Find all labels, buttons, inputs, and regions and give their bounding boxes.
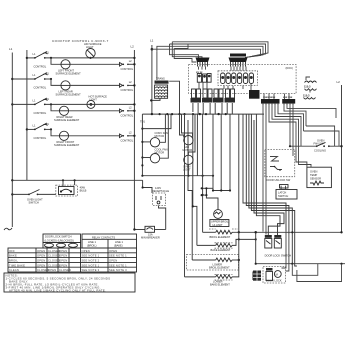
svg-text:LINE 1: LINE 1 xyxy=(88,240,96,244)
svg-text:SURFACE ELEMENT: SURFACE ELEMENT xyxy=(56,72,82,76)
connector blob xyxy=(253,272,258,281)
wire xyxy=(142,114,171,129)
lower bus xyxy=(256,263,345,265)
motor door lock xyxy=(263,267,286,284)
svg-text:LINE 1: LINE 1 xyxy=(115,240,123,244)
pin header row xyxy=(191,89,236,103)
svg-text:TIME BAKE: TIME BAKE xyxy=(9,263,25,267)
motor oven fan xyxy=(180,114,194,152)
wire xyxy=(70,63,119,65)
receptacle 120V xyxy=(152,186,169,206)
relay contacts header xyxy=(82,234,137,248)
switch oven light xyxy=(27,190,43,205)
lower bake element xyxy=(185,260,258,286)
svg-text:M: M xyxy=(276,272,278,276)
connector P2 xyxy=(229,54,248,67)
wire L1 bus A xyxy=(11,53,13,228)
svg-text:L2: L2 xyxy=(131,45,135,49)
transformer T1 xyxy=(150,77,180,115)
svg-text:OVEN: OVEN xyxy=(310,170,317,174)
svg-text:LIGHT: LIGHT xyxy=(86,45,94,49)
svg-text:TRANS: TRANS xyxy=(156,77,165,81)
motor conv fan xyxy=(142,114,167,147)
wire top feed 3 xyxy=(170,44,266,57)
door lock switch dashed box xyxy=(265,150,295,183)
svg-text:CONTROL: CONTROL xyxy=(121,139,134,143)
door lock area xyxy=(253,231,345,283)
svg-text:H1: H1 xyxy=(46,122,50,126)
element right rear xyxy=(59,106,68,115)
svg-text:SWITCH: SWITCH xyxy=(29,201,39,205)
svg-text:SEE NOTE 1: SEE NOTE 1 xyxy=(109,254,127,258)
interlock dark xyxy=(253,271,261,281)
svg-text:OPEN: OPEN xyxy=(59,259,67,263)
switch b xyxy=(274,235,281,238)
svg-text:SEE NOTE 1: SEE NOTE 1 xyxy=(109,263,127,267)
lamp cooktop light xyxy=(86,49,95,58)
broil element xyxy=(203,229,343,239)
svg-text:SENSOR: SENSOR xyxy=(310,176,321,180)
svg-text:TEMP: TEMP xyxy=(310,173,317,177)
row 4: right front xyxy=(26,128,28,130)
latch switch box xyxy=(276,185,297,200)
svg-text:AFTER 40 MIN. LINE 1/BAKE CYCL: AFTER 40 MIN. LINE 1/BAKE CYCLING ONLY A… xyxy=(9,288,106,292)
svg-text:OPEN: OPEN xyxy=(109,249,117,253)
svg-text:OPEN: OPEN xyxy=(109,259,117,263)
svg-text:L1: L1 xyxy=(9,47,13,51)
svg-text:SEE NOTE 1: SEE NOTE 1 xyxy=(82,254,100,258)
notes box xyxy=(4,273,135,292)
wires xyxy=(292,264,318,276)
svg-text:OFF: OFF xyxy=(9,249,15,253)
svg-text:DOOR UNLOCK SW: DOOR UNLOCK SW xyxy=(266,178,291,182)
svg-text:SEE NOTE 3: SEE NOTE 3 xyxy=(109,268,127,272)
svg-text:L2: L2 xyxy=(337,80,341,84)
ground break squiggle xyxy=(4,228,12,230)
trunk wires down xyxy=(192,103,194,112)
nested elbows to door area xyxy=(243,114,286,232)
svg-text:(BAKE): (BAKE) xyxy=(114,244,123,248)
wire receptacle branch xyxy=(143,180,152,193)
svg-text:L1: L1 xyxy=(150,39,154,43)
thermal fan switch xyxy=(289,139,343,153)
oven light box xyxy=(56,180,87,196)
motor cooling fan xyxy=(142,114,168,163)
svg-text:BAKE: BAKE xyxy=(9,254,17,258)
svg-text:MINI-BREAKER: MINI-BREAKER xyxy=(141,236,160,240)
svg-text:OPEN: OPEN xyxy=(59,263,67,267)
svg-text:LIGHT: LIGHT xyxy=(89,97,97,101)
wire L1 bus B xyxy=(26,50,28,180)
BOTTOM TABLES xyxy=(4,234,137,292)
control board dashed box xyxy=(189,65,297,94)
svg-text:SEE NOTE 1: SEE NOTE 1 xyxy=(82,263,100,267)
svg-text:DOOR LOCK SWITCH: DOOR LOCK SWITCH xyxy=(265,254,292,258)
svg-text:BROIL ELEMENT: BROIL ELEMENT xyxy=(210,235,231,239)
svg-text:H1: H1 xyxy=(46,97,50,101)
junction xyxy=(133,57,135,59)
svg-text:115:3: 115:3 xyxy=(304,85,311,89)
element right front xyxy=(59,131,68,140)
svg-text:BROIL: BROIL xyxy=(9,259,18,263)
switch control 1 xyxy=(33,51,50,69)
svg-text:RELAY CONTACTS: RELAY CONTACTS xyxy=(92,235,115,239)
svg-text:CONTROL: CONTROL xyxy=(34,86,47,90)
wire wrap into P1 a xyxy=(170,44,199,58)
svg-text:HI-LIMIT: HI-LIMIT xyxy=(213,223,224,227)
main bus below board xyxy=(142,113,264,115)
wire wrap into P1 c xyxy=(174,49,196,63)
svg-text:OPEN: OPEN xyxy=(37,254,45,258)
svg-text:OPEN: OPEN xyxy=(59,249,67,253)
svg-text:SURFACE ELEMENT: SURFACE ELEMENT xyxy=(54,143,80,147)
svg-text:CONTROL: CONTROL xyxy=(121,88,134,92)
svg-text:SEE NOTE 2: SEE NOTE 2 xyxy=(82,259,100,263)
svg-text:SURFACE ELEMENT: SURFACE ELEMENT xyxy=(56,93,82,97)
wire top feed 4 xyxy=(172,42,268,56)
wire xyxy=(12,193,29,195)
oven sensor box xyxy=(296,152,331,188)
svg-text:RECEPTACLE: RECEPTACLE xyxy=(152,189,169,193)
connector P3 dark xyxy=(249,90,260,99)
svg-text:OPEN: OPEN xyxy=(37,259,45,263)
svg-text:CONTROL: CONTROL xyxy=(121,114,134,118)
element left rear xyxy=(61,81,70,90)
transformer sym 115:3 b xyxy=(303,91,316,100)
fanout from P4 P5 xyxy=(263,106,336,235)
LEFT COOKTOP SECTION xyxy=(4,39,169,240)
terminal cluster row1 xyxy=(120,59,134,71)
wire transformer feed xyxy=(156,51,158,80)
wire xyxy=(45,57,135,59)
transformer sym 115:3 a xyxy=(304,77,317,90)
svg-text:CLEAN: CLEAN xyxy=(9,268,19,272)
door lock switch header xyxy=(43,234,81,248)
svg-text:BAKE ELEMENT: BAKE ELEMENT xyxy=(210,282,230,286)
junction xyxy=(26,57,28,59)
RIGHT CONTROL SECTION xyxy=(140,39,345,287)
svg-text:OPEN: OPEN xyxy=(37,263,45,267)
relay box K2 group xyxy=(218,71,257,86)
svg-text:LATCH: LATCH xyxy=(278,191,286,195)
relay K1 xyxy=(196,71,211,82)
svg-text:(BROIL): (BROIL) xyxy=(87,244,97,248)
svg-text:BROIL ELEMENT: BROIL ELEMENT xyxy=(209,266,230,270)
wire xyxy=(159,206,166,230)
bake element xyxy=(197,238,257,252)
svg-text:CONTROL: CONTROL xyxy=(34,136,47,140)
svg-text:DOOR LOCK SWITCH: DOOR LOCK SWITCH xyxy=(45,235,72,239)
svg-text:115:3: 115:3 xyxy=(303,93,310,97)
svg-text:OPEN: OPEN xyxy=(82,249,90,253)
row 2: left rear xyxy=(11,78,13,80)
junction xyxy=(11,193,13,195)
svg-text:CONTROL: CONTROL xyxy=(34,111,47,115)
svg-text:SWITCH: SWITCH xyxy=(278,194,288,198)
lower broil element xyxy=(187,232,241,270)
svg-text:CLOSED: CLOSED xyxy=(59,268,71,272)
svg-text:OPEN: OPEN xyxy=(59,254,67,258)
mini breaker xyxy=(133,226,166,239)
svg-text:BULB: BULB xyxy=(80,189,87,193)
data table xyxy=(8,248,137,272)
wire L2 right bus xyxy=(341,85,343,232)
loop wire xyxy=(306,126,335,146)
svg-text:OPEN: OPEN xyxy=(37,249,45,253)
svg-text:(DOC): (DOC) xyxy=(286,66,294,70)
svg-text:SEE NOTE 3: SEE NOTE 3 xyxy=(82,268,100,272)
wire L1 right bus xyxy=(151,45,153,114)
svg-text:DOOR LOCK: DOOR LOCK xyxy=(266,279,282,283)
wire xyxy=(27,57,35,59)
svg-text:CONTROL: CONTROL xyxy=(34,65,47,69)
bottom fan bus xyxy=(142,175,213,177)
motor lower fan xyxy=(183,114,197,177)
svg-text:H1: H1 xyxy=(46,72,50,76)
connector P1 xyxy=(196,58,210,67)
svg-text:MOTOR: MOTOR xyxy=(183,148,193,152)
wire top feed 2 xyxy=(157,46,263,57)
svg-text:SURFACE ELEMENT: SURFACE ELEMENT xyxy=(54,118,80,122)
svg-text:(LOCKED) (UNLOCKED): (LOCKED) (UNLOCKED) xyxy=(45,239,74,243)
wire xyxy=(12,179,142,181)
wire stubs P1 to K1 xyxy=(199,67,252,91)
row 3: right rear xyxy=(11,103,13,105)
lamp hot surface indicator xyxy=(87,95,107,109)
switch a xyxy=(265,235,272,238)
svg-text:H1: H1 xyxy=(46,51,50,55)
element left front xyxy=(61,60,70,69)
stubs board to P4 P5 xyxy=(264,94,289,100)
svg-text:COOLING: COOLING xyxy=(314,149,326,153)
junction xyxy=(11,179,13,181)
wire wrap into P1 b xyxy=(172,42,202,58)
wire top feed 1 xyxy=(152,49,261,57)
wire L2 bus xyxy=(133,50,135,230)
long trunk verticals xyxy=(184,114,186,277)
lower oven hi-limit xyxy=(192,187,231,227)
svg-text:OPEN: OPEN xyxy=(48,268,56,272)
svg-text:CONTROL: CONTROL xyxy=(121,67,134,71)
